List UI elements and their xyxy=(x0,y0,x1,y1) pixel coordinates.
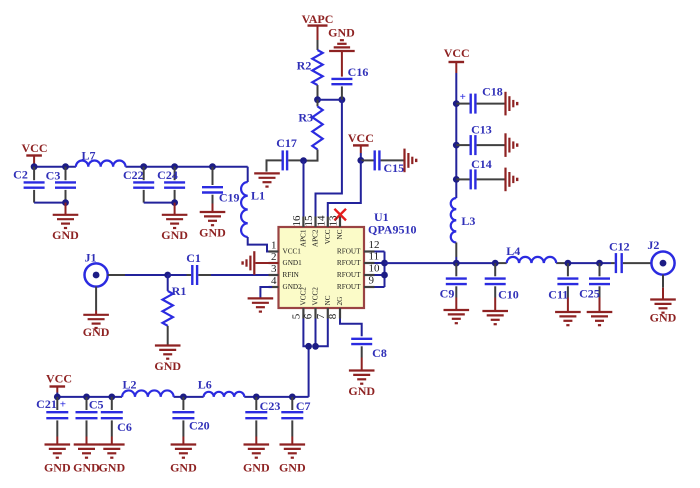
capacitor C16 xyxy=(331,78,352,80)
ground GND (R1) xyxy=(155,344,181,346)
svg-text:RFOUT: RFOUT xyxy=(337,259,361,267)
svg-text:L4: L4 xyxy=(506,244,520,258)
svg-text:L3: L3 xyxy=(461,214,475,228)
svg-text:GND1: GND1 xyxy=(283,259,303,267)
wire VCC column xyxy=(455,73,457,198)
svg-text:6: 6 xyxy=(303,313,315,319)
node C18/C13/C14 taps xyxy=(453,100,460,107)
svg-text:GND: GND xyxy=(73,461,100,475)
node R1 tap xyxy=(164,272,171,279)
svg-text:GND: GND xyxy=(170,461,197,475)
wire bottom VCC rail xyxy=(57,396,122,398)
svg-text:L6: L6 xyxy=(198,378,212,392)
svg-text:GND: GND xyxy=(98,461,125,475)
resistor R3 xyxy=(317,100,319,107)
ground GND (J2) xyxy=(662,275,664,288)
capacitor C5 xyxy=(86,397,88,410)
svg-text:RFOUT: RFOUT xyxy=(337,248,361,256)
ground GND (C5) xyxy=(74,443,100,445)
ground GND (C20) xyxy=(171,443,197,445)
svg-text:12: 12 xyxy=(369,239,380,251)
pin stubs right (12-9) xyxy=(364,250,375,252)
svg-text:C22: C22 xyxy=(123,168,144,182)
svg-text:C5: C5 xyxy=(89,398,104,412)
svg-text:L2: L2 xyxy=(122,378,136,392)
connector J1 xyxy=(85,263,108,286)
wire C2-C3 bottom xyxy=(34,202,65,204)
capacitor C7 xyxy=(291,397,293,410)
svg-text:GND: GND xyxy=(83,325,110,339)
svg-text:R3: R3 xyxy=(298,111,313,125)
svg-text:+: + xyxy=(60,399,66,411)
svg-text:GND: GND xyxy=(279,461,306,475)
capacitor C9 xyxy=(455,263,457,276)
wire VCC rail xyxy=(34,166,76,168)
inductor L7 xyxy=(76,161,126,167)
wire C16 node to pin15 xyxy=(316,100,342,217)
svg-text:GND: GND xyxy=(199,226,226,240)
svg-text:C20: C20 xyxy=(189,418,210,432)
capacitor C6 xyxy=(111,397,113,410)
capacitor C18 (polarized) xyxy=(456,103,469,105)
earth ground (pin2 GND1) xyxy=(256,262,279,264)
ground (C25) xyxy=(587,311,613,313)
wire VCC to pin14 xyxy=(328,160,361,216)
ground (C17) xyxy=(254,172,280,174)
svg-text:11: 11 xyxy=(369,251,380,263)
svg-text:NC: NC xyxy=(324,295,332,305)
svg-text:1: 1 xyxy=(271,240,277,252)
wire R2-C16 xyxy=(318,99,342,101)
op-amp U1 QPA9510 body xyxy=(279,227,365,308)
svg-text:VCC: VCC xyxy=(22,141,48,155)
inductor L2 xyxy=(122,390,174,396)
wire RFOUT bus xyxy=(375,251,385,253)
svg-text:C2: C2 xyxy=(13,167,28,181)
earth ground (C18) xyxy=(504,92,506,116)
svg-text:10: 10 xyxy=(369,263,381,275)
node RFOUT bus junctions xyxy=(381,260,388,267)
earth ground (C14) xyxy=(504,168,506,192)
svg-text:C19: C19 xyxy=(219,190,240,204)
svg-text:L1: L1 xyxy=(251,188,265,202)
svg-text:C10: C10 xyxy=(498,287,519,301)
node bottom rail junctions xyxy=(54,394,61,401)
svg-text:L7: L7 xyxy=(81,149,95,163)
svg-text:C24: C24 xyxy=(157,168,178,182)
svg-text:8: 8 xyxy=(327,313,339,319)
capacitor C1 xyxy=(168,274,187,276)
svg-text:RFIN: RFIN xyxy=(283,271,300,279)
wire C22-C24 bottom xyxy=(144,202,175,204)
svg-text:C3: C3 xyxy=(46,169,61,183)
svg-text:GND: GND xyxy=(161,228,188,242)
inductor L4 xyxy=(507,257,557,263)
svg-text:GND: GND xyxy=(52,228,79,242)
svg-text:C16: C16 xyxy=(348,65,369,79)
svg-text:RFOUT: RFOUT xyxy=(337,283,361,291)
svg-text:QPA9510: QPA9510 xyxy=(368,223,416,237)
svg-text:4: 4 xyxy=(271,275,277,287)
node pin5/6/7 junctions xyxy=(305,343,312,350)
svg-text:GND: GND xyxy=(348,384,375,398)
ground (C9) xyxy=(444,309,470,311)
wire L1 to pin1 xyxy=(248,237,269,252)
node C17/R3 junction xyxy=(300,157,307,164)
svg-text:14: 14 xyxy=(316,215,328,227)
svg-text:2: 2 xyxy=(271,251,277,263)
svg-text:C11: C11 xyxy=(548,287,568,301)
pin stubs bottom (5-8) xyxy=(302,308,304,319)
ground GND (J1) xyxy=(95,287,97,311)
ground GND (C7) xyxy=(280,443,306,445)
capacitor C10 xyxy=(494,263,496,276)
capacitor C19 xyxy=(212,167,214,185)
capacitor C12 xyxy=(615,253,617,273)
svg-text:R2: R2 xyxy=(297,58,312,72)
svg-text:VCC: VCC xyxy=(348,131,374,145)
svg-text:GND: GND xyxy=(650,311,677,325)
node R2/R3/C16 xyxy=(314,96,321,103)
resistor R2 xyxy=(317,40,319,50)
capacitor C13 xyxy=(456,144,469,146)
ground GND (C23) xyxy=(244,443,270,445)
wire pins 5/6/7 to rail xyxy=(303,319,308,347)
capacitor C15 xyxy=(360,159,362,161)
svg-text:16: 16 xyxy=(291,215,303,227)
capacitor C2 xyxy=(33,167,35,181)
svg-text:2G: 2G xyxy=(336,297,344,306)
svg-text:13: 13 xyxy=(328,215,340,227)
ground GND (C21) xyxy=(45,443,71,445)
no-connect X on pin 13 xyxy=(334,209,346,221)
svg-text:15: 15 xyxy=(303,215,315,227)
svg-text:VCC1: VCC1 xyxy=(283,248,302,256)
ground GND (C2 C3) xyxy=(65,203,67,215)
wire to pin16 xyxy=(303,161,305,217)
capacitor C24 xyxy=(174,167,176,181)
ground GND (C22 C24) xyxy=(174,203,176,215)
svg-text:C7: C7 xyxy=(296,399,311,413)
svg-text:C1: C1 xyxy=(186,251,201,265)
svg-text:C18: C18 xyxy=(482,85,503,99)
node output taps xyxy=(453,260,460,267)
earth ground (C15) xyxy=(403,149,405,173)
ground (C10) xyxy=(482,310,508,312)
svg-text:C13: C13 xyxy=(471,123,492,137)
svg-text:GND: GND xyxy=(44,461,71,475)
svg-text:C15: C15 xyxy=(383,161,404,175)
capacitor C21 (polarized) xyxy=(56,397,58,410)
wire pin8 to C8 xyxy=(340,319,362,337)
svg-text:C17: C17 xyxy=(276,136,297,150)
svg-text:C8: C8 xyxy=(372,346,387,360)
svg-text:9: 9 xyxy=(369,275,375,287)
svg-text:C23: C23 xyxy=(260,399,281,413)
capacitor C8 xyxy=(351,338,372,340)
capacitor C22 xyxy=(143,167,145,181)
svg-text:VCC2: VCC2 xyxy=(312,287,320,306)
svg-text:NC: NC xyxy=(336,229,344,239)
inductor L1 xyxy=(241,182,248,237)
ground (pin4 GND2) xyxy=(272,286,279,288)
svg-text:RFOUT: RFOUT xyxy=(337,271,361,279)
ground GND (C8) xyxy=(349,369,375,371)
capacitor C11 xyxy=(567,263,569,276)
svg-text:+: + xyxy=(460,91,466,103)
svg-text:C25: C25 xyxy=(579,287,600,301)
earth ground (C13) xyxy=(504,133,506,157)
svg-text:R1: R1 xyxy=(172,284,187,298)
svg-text:VCC2: VCC2 xyxy=(299,287,307,306)
wire L3 to output line xyxy=(455,243,457,258)
inductor L3 xyxy=(451,198,457,242)
node VCC/C15 xyxy=(357,157,364,164)
pin stubs top (16-13) xyxy=(302,217,304,228)
capacitor C14 xyxy=(456,178,469,180)
svg-text:GND: GND xyxy=(328,26,355,40)
inductor L6 xyxy=(204,392,245,397)
svg-text:C12: C12 xyxy=(609,240,630,254)
svg-text:C9: C9 xyxy=(440,287,455,301)
svg-text:APC1: APC1 xyxy=(299,229,307,247)
svg-text:APC2: APC2 xyxy=(312,229,320,247)
svg-text:C21: C21 xyxy=(36,397,57,411)
wire main output line xyxy=(385,262,496,264)
svg-text:VAPC: VAPC xyxy=(302,12,334,26)
capacitor C17 xyxy=(282,150,284,170)
ground GND (C19) xyxy=(212,204,214,213)
svg-text:C14: C14 xyxy=(471,157,492,171)
capacitor C3 xyxy=(65,167,67,181)
svg-text:J2: J2 xyxy=(647,238,659,252)
wire J1 to C1 xyxy=(108,274,125,276)
svg-text:GND: GND xyxy=(243,461,270,475)
ground (C11) xyxy=(555,311,581,313)
svg-text:VCC: VCC xyxy=(444,46,470,60)
pin stubs left (1-4) xyxy=(269,250,279,252)
svg-text:J1: J1 xyxy=(85,251,97,265)
ground GND (C6) xyxy=(99,443,125,445)
svg-text:VCC: VCC xyxy=(324,229,332,244)
node rail junctions xyxy=(31,163,38,170)
connector J2 xyxy=(651,252,674,275)
svg-text:C6: C6 xyxy=(117,420,132,434)
svg-text:5: 5 xyxy=(290,313,302,319)
svg-text:GND: GND xyxy=(154,359,181,373)
svg-text:3: 3 xyxy=(271,263,277,275)
resistor R1 xyxy=(167,275,169,291)
capacitor C25 xyxy=(599,263,601,276)
capacitor C23 xyxy=(255,397,257,410)
svg-text:VCC: VCC xyxy=(46,371,72,385)
capacitor C20 xyxy=(182,397,184,410)
svg-text:7: 7 xyxy=(315,313,327,319)
